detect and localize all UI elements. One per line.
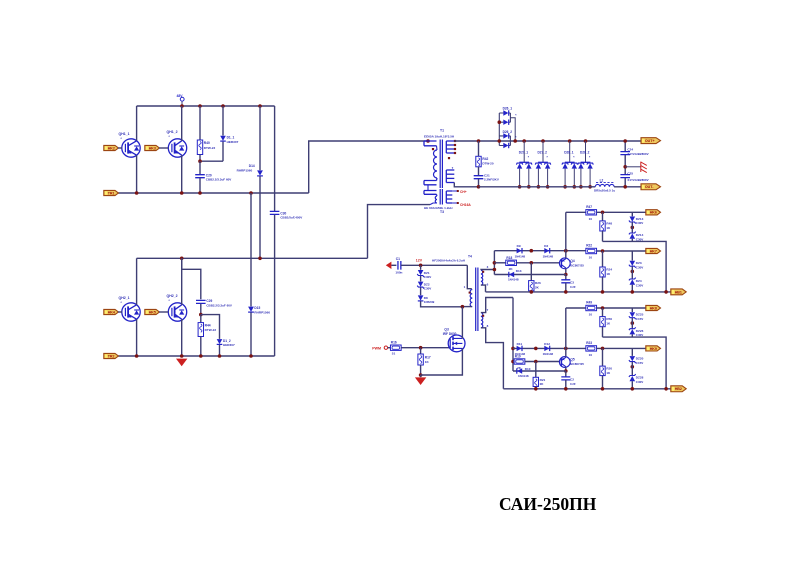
svg-text:CH+: CH+ (460, 190, 467, 194)
transformer T4 secondary B (481, 313, 483, 328)
gate tag HK5 (145, 309, 160, 314)
wire gate QH1_1 (118, 147, 122, 149)
wire to transformer primary top (309, 141, 428, 193)
diode block D26_2 (499, 136, 510, 146)
svg-text:C2: C2 (570, 377, 574, 381)
svg-text:D2: D2 (544, 244, 548, 248)
svg-text:QH2_2: QH2_2 (167, 294, 178, 298)
resistor R26 (530, 263, 532, 281)
svg-text:HB2: HB2 (675, 387, 682, 391)
resistor R50 (602, 308, 604, 317)
svg-text:C30V: C30V (636, 283, 644, 287)
svg-text:Q3: Q3 (444, 327, 449, 331)
svg-text:C1: C1 (396, 257, 400, 261)
svg-text:TR2: TR2 (108, 354, 115, 358)
diode block D26_1 (498, 113, 500, 146)
diode D8 (420, 287, 422, 295)
svg-text:TR1: TR1 (108, 191, 115, 195)
svg-text:R24: R24 (606, 268, 612, 272)
current transformer T3 (424, 191, 437, 195)
svg-text:CH16A: CH16A (460, 203, 471, 207)
svg-text:R22: R22 (586, 243, 592, 247)
resistor R47 (586, 210, 597, 215)
output tag OUT- (641, 184, 661, 190)
diode element D28_1-a (562, 163, 567, 168)
wire R49 row (565, 308, 567, 348)
resistor R20 (602, 348, 604, 366)
svg-text:HK2: HK2 (108, 146, 115, 150)
diode element D28_2-b (587, 163, 592, 168)
resistor R17 (420, 348, 422, 354)
svg-text:1UF: 1UF (570, 285, 576, 289)
svg-text:R16: R16 (391, 340, 397, 344)
diode element D27_1-a (517, 163, 522, 168)
svg-text:D28_2: D28_2 (580, 151, 590, 155)
transformer T4 primary (467, 265, 472, 288)
bus tag TR2 (104, 353, 119, 358)
svg-text:HK7: HK7 (650, 249, 657, 253)
zener DZ26 (631, 318, 633, 329)
zener DZ13 (631, 212, 633, 216)
zener DZ20 (631, 348, 633, 356)
chassis ground (625, 166, 640, 168)
svg-text:C30V: C30V (636, 265, 644, 269)
diode D12 1N4148 (544, 346, 549, 351)
rail tag HB1 (671, 289, 686, 295)
svg-text:BC807/25: BC807/25 (570, 362, 584, 366)
svg-text:48V: 48V (177, 94, 184, 98)
svg-text:R44: R44 (205, 324, 211, 328)
wire R40-D1_1 node (200, 160, 223, 162)
svg-text:51: 51 (392, 352, 396, 356)
wire secondary top bus (454, 140, 642, 142)
svg-text:D26_2: D26_2 (503, 130, 513, 134)
svg-text:R49: R49 (586, 300, 592, 304)
svg-text:HK5: HK5 (149, 310, 156, 314)
wire T1 secondary to output bus (454, 183, 478, 187)
gate tag HK2 (104, 145, 119, 150)
svg-text:QH1_1: QH1_1 (119, 132, 130, 136)
wire gate QH2_1 (118, 311, 122, 313)
wire Q3 drain (461, 307, 463, 339)
wire D9/D2 row (494, 250, 585, 252)
svg-text:D12: D12 (544, 342, 550, 346)
svg-text:R23: R23 (586, 341, 592, 345)
svg-text:1N4148: 1N4148 (543, 255, 554, 259)
diode D9 1N4148 (517, 248, 522, 253)
wire T3 pin CH16A (452, 202, 457, 204)
svg-text:HK9: HK9 (650, 347, 657, 351)
diode element D27_2-a (536, 163, 541, 168)
wire T4 pin7 column (512, 298, 514, 372)
wire lower group1 return (603, 337, 667, 389)
svg-text:HK6: HK6 (650, 211, 657, 215)
resistor R18 (494, 262, 505, 264)
svg-text:HER307: HER307 (223, 343, 235, 347)
zener DZ25 (631, 308, 633, 312)
zener DZ2 (420, 276, 422, 282)
svg-text:RHRP1560: RHRP1560 (254, 311, 270, 315)
svg-text:DZ4: DZ4 (636, 279, 642, 283)
svg-text:T4: T4 (468, 255, 472, 259)
svg-text:C30V: C30V (424, 275, 432, 279)
svg-text:R26: R26 (535, 281, 541, 285)
wire R47 to tag (597, 211, 646, 213)
capacitor C20 (199, 161, 201, 174)
IGBT QH1_2 (168, 139, 186, 157)
svg-text:D26_1: D26_1 (503, 107, 513, 111)
wire QH1_2 collector (181, 106, 183, 141)
wire upper common rail (486, 291, 672, 293)
resistor R42 snubber (477, 139, 481, 143)
svg-text:D28_1: D28_1 (564, 151, 574, 155)
svg-text:CBB1/5uF,400V: CBB1/5uF,400V (280, 216, 302, 220)
dual rectifier diode D27_2 feed wire (542, 141, 544, 162)
wire Q3 source (421, 348, 463, 375)
svg-text:R17: R17 (425, 355, 431, 359)
svg-text:DZ13: DZ13 (636, 217, 644, 221)
resistor R24 (602, 251, 604, 267)
svg-text:OUT-: OUT- (645, 185, 654, 189)
wire lower emitter bus (118, 355, 275, 357)
svg-text:R21: R21 (540, 378, 546, 382)
svg-text:DR5x20x6.5 1u: DR5x20x6.5 1u (594, 188, 615, 192)
diode D13 1N4148 (494, 274, 565, 276)
diode D15 RHRP1560 (250, 193, 252, 306)
svg-text:D10: D10 (525, 367, 531, 371)
svg-text:C15V: C15V (636, 361, 644, 365)
wire R47 row (565, 212, 567, 250)
svg-text:D27_2: D27_2 (538, 151, 548, 155)
svg-text:DZ20: DZ20 (636, 356, 644, 360)
wire secondary bottom bus (479, 186, 596, 188)
dual rectifier diode D28_1 feed wire (569, 141, 571, 162)
resistor R44 (200, 315, 202, 323)
svg-text:T1: T1 (440, 128, 444, 132)
wire gate QH1_2 (159, 147, 168, 149)
capacitor C24 (624, 141, 626, 152)
svg-text:HK4: HK4 (108, 310, 115, 314)
transformer T3 core (440, 189, 442, 205)
svg-text:10: 10 (589, 312, 593, 316)
power symbol 48V (181, 101, 183, 106)
dual rectifier diode D27_1 feed wire (523, 141, 525, 162)
transformer T1 primary winding (426, 139, 430, 143)
svg-text:QH1_2: QH1_2 (167, 130, 178, 134)
svg-text:C15V: C15V (636, 317, 644, 321)
capacitor C2 (565, 371, 567, 377)
wire D11/D12 row (513, 347, 586, 349)
capacitor C21 (474, 176, 484, 179)
svg-text:R40: R40 (204, 141, 210, 145)
svg-text:10: 10 (589, 255, 593, 259)
wire top bus +rail (137, 105, 275, 107)
svg-text:R48: R48 (606, 222, 612, 226)
svg-text:HER307: HER307 (227, 140, 239, 144)
transformer T1 core (440, 140, 442, 189)
svg-text:DZ3: DZ3 (636, 261, 642, 265)
wire 12V rail (401, 264, 467, 266)
capacitor C3 (565, 275, 567, 280)
wire R18 to Q4 base (516, 262, 561, 264)
svg-text:DTW-22: DTW-22 (204, 146, 216, 150)
transformer T4 core (476, 268, 478, 332)
svg-text:Q4: Q4 (570, 259, 574, 263)
resistor R16 (388, 347, 391, 349)
svg-text:HE 60A/A50b 1.2uH: HE 60A/A50b 1.2uH (424, 206, 453, 210)
svg-text:HF2005A4x4x2h 6.2uH: HF2005A4x4x2h 6.2uH (432, 259, 466, 263)
wire C29 branch (182, 258, 201, 299)
MOSFET Q3 (448, 335, 465, 352)
resistor R49 (586, 305, 597, 310)
transformer T3 secondary winding (446, 190, 452, 192)
wire Q5 collector (565, 367, 567, 371)
svg-text:CBB2.2/3.3uF 60V: CBB2.2/3.3uF 60V (206, 303, 232, 307)
wire Q4 emitter (565, 251, 567, 259)
diode D11 1N4148 (517, 346, 522, 351)
zener DZ4 (631, 267, 633, 280)
diode element D28_1-b (572, 163, 577, 168)
capacitor C1 (398, 261, 401, 270)
svg-text:HK8: HK8 (650, 306, 657, 310)
wire R19 to Q5 base (525, 361, 561, 363)
svg-text:1N4148: 1N4148 (543, 352, 554, 356)
svg-text:D27_1: D27_1 (519, 151, 529, 155)
gate tag HK6 (646, 210, 661, 215)
diode element D27_2-b (545, 163, 550, 168)
diode D14 RHRP1560 (259, 106, 261, 170)
zener DZ28 (631, 362, 633, 376)
svg-text:D13: D13 (516, 269, 522, 273)
rail tag HB2 (671, 386, 686, 392)
wire Q4 collector (565, 268, 567, 274)
svg-text:EE65A 19uH,18*3.5H: EE65A 19uH,18*3.5H (424, 135, 455, 139)
wire R22 to tag (597, 250, 646, 252)
svg-text:T3: T3 (440, 210, 444, 214)
gate tag HK9 (646, 346, 661, 351)
wire QH1_1 collector (136, 106, 138, 141)
svg-text:1N4148: 1N4148 (515, 255, 526, 259)
ground (176, 359, 187, 367)
svg-text:1N4148: 1N4148 (508, 278, 519, 282)
svg-text:L2: L2 (600, 178, 604, 182)
diode D2 1N4148 (544, 248, 549, 253)
transformer T1 secondary upper winding (446, 140, 454, 142)
svg-text:C30V: C30V (424, 287, 432, 291)
capacitor C29 (196, 300, 206, 303)
svg-text:САИ-250ПН: САИ-250ПН (499, 494, 597, 514)
transistor Q4 BC807 (559, 258, 570, 269)
wire QH1_2 emitter (181, 155, 183, 193)
wire R49 to tag (597, 307, 646, 309)
wire lower common rail (503, 388, 671, 390)
svg-text:DZ26: DZ26 (636, 329, 644, 333)
wire QH2_1 emitter (136, 319, 138, 356)
svg-text:D14: D14 (249, 164, 255, 168)
svg-text:R50: R50 (606, 317, 612, 321)
svg-text:1UF: 1UF (570, 382, 576, 386)
wire D26 to bus (510, 118, 515, 141)
svg-text:DZ14: DZ14 (636, 233, 644, 237)
resistor R19 (513, 361, 514, 363)
svg-text:DZ28: DZ28 (636, 376, 644, 380)
wire T3 pin CH+ (452, 190, 457, 192)
zener DZ3 (631, 251, 633, 261)
wire R23 to tag (597, 347, 646, 349)
svg-text:HK3: HK3 (149, 146, 156, 150)
svg-text:R20: R20 (606, 367, 612, 371)
transformer T4 secondary A (481, 270, 483, 285)
gate tag HK3 (145, 145, 160, 150)
svg-text:RHRP1560: RHRP1560 (237, 169, 253, 173)
ground at R17 (420, 375, 422, 377)
diode D1_2 HER307 (201, 315, 220, 339)
dual rectifier diode D28_2 feed wire (585, 141, 587, 162)
wire QH2_2 collector (181, 258, 183, 305)
svg-text:HB1: HB1 (675, 290, 682, 294)
zener DZ14 (631, 222, 633, 233)
transistor Q5 BC807 (559, 357, 570, 368)
diode D10 1N4148 (513, 370, 566, 372)
IGBT QH2_2 (168, 303, 186, 321)
resistor R21 (535, 362, 537, 378)
svg-text:10: 10 (589, 353, 593, 357)
svg-text:1N4148: 1N4148 (518, 374, 529, 378)
wire T4 pin3 column (493, 251, 495, 275)
svg-text:DTW-20: DTW-20 (482, 161, 493, 165)
wire lower bus to current transformer (368, 205, 431, 259)
IGBT QH1_1 (122, 139, 140, 157)
svg-text:PWM: PWM (372, 346, 381, 350)
svg-text:D15: D15 (254, 306, 260, 310)
diode element D28_2-a (578, 163, 583, 168)
svg-text:CBB2.2/3.3uF 60V: CBB2.2/3.3uF 60V (206, 178, 232, 182)
svg-text:OUT+: OUT+ (645, 139, 655, 143)
diode element D27_1-b (526, 163, 531, 168)
svg-text:R18: R18 (506, 256, 512, 260)
svg-text:D11: D11 (517, 342, 523, 346)
IGBT QH2_1 (122, 303, 140, 321)
svg-text:2.2NF/2KV: 2.2NF/2KV (484, 178, 499, 182)
svg-text:R19: R19 (515, 355, 521, 359)
wire QH1_1 emitter (136, 155, 138, 193)
wire QH2_1 collector (136, 258, 138, 305)
bus tag TR1 (104, 190, 119, 195)
svg-text:10: 10 (589, 217, 593, 221)
svg-text:C30V: C30V (636, 221, 644, 225)
wire gate QH2_2 (159, 311, 168, 313)
gate tag HK4 (104, 309, 119, 314)
resistor R48 (602, 212, 604, 221)
svg-text:12V: 12V (416, 259, 423, 263)
svg-text:X1Y2A/B2800V: X1Y2A/B2800V (627, 178, 648, 182)
capacitor C30 on bus link (274, 106, 276, 211)
svg-text:C3: C3 (570, 280, 574, 284)
wire Q5 emitter (565, 348, 567, 357)
capacitor C25 (620, 175, 630, 178)
gate tag HK7 (646, 248, 661, 253)
output tag OUT+ (641, 138, 661, 144)
svg-text:X1Y2A/B2800V: X1Y2A/B2800V (627, 152, 648, 156)
wire L2 to OUT- (614, 186, 642, 188)
transformer T1 secondary lower winding (446, 169, 454, 171)
wire gate Q3 (401, 347, 449, 349)
svg-text:QH2_1: QH2_1 (119, 296, 130, 300)
svg-text:D9: D9 (517, 244, 521, 248)
svg-text:DZ25: DZ25 (636, 312, 644, 316)
wire lower bridge top bus (137, 257, 368, 259)
svg-text:R42: R42 (482, 157, 488, 161)
wire upper group1 return (603, 241, 667, 292)
resistor R23 (586, 346, 597, 351)
zener DZ1 (420, 265, 422, 270)
diode D1_1 HER307 (222, 106, 224, 136)
svg-text:C25: C25 (627, 171, 633, 175)
svg-text:100n: 100n (395, 271, 402, 275)
resistor R40 (199, 106, 201, 140)
wire QH2_2 emitter (181, 319, 183, 356)
inductor L2 (595, 184, 614, 186)
wire emitter bus (TR node) (118, 192, 309, 194)
power arrow 12V (386, 262, 392, 269)
svg-text:DTW-22: DTW-22 (205, 328, 217, 332)
svg-text:1N5239: 1N5239 (424, 300, 435, 304)
svg-text:Q5: Q5 (570, 358, 574, 362)
resistor R22 (586, 248, 597, 253)
transformer T3 primary link (427, 185, 429, 191)
svg-text:C30V: C30V (636, 380, 644, 384)
svg-text:R47: R47 (586, 205, 592, 209)
svg-text:IRF D630: IRF D630 (443, 332, 457, 336)
svg-text:BC807/25: BC807/25 (570, 263, 584, 267)
gate tag HK8 (646, 305, 661, 310)
